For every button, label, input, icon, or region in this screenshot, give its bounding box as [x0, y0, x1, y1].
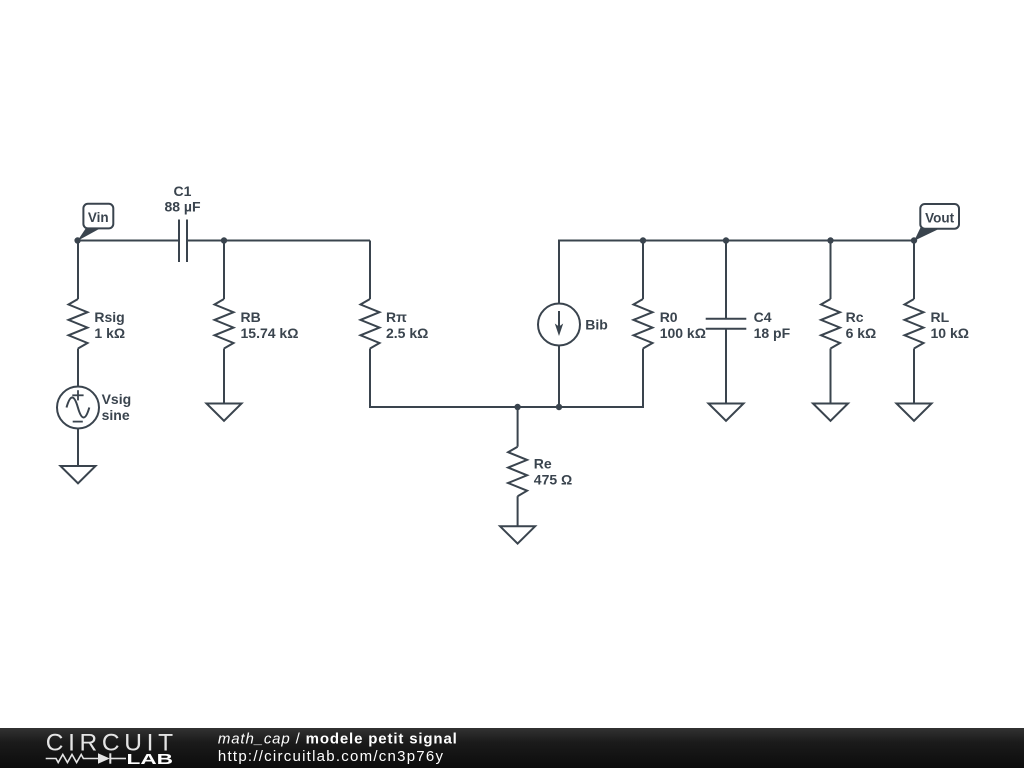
node Rc junction dot — [827, 237, 833, 243]
svg-text:R0: R0 — [660, 309, 678, 325]
node name flag Vout — [914, 204, 959, 241]
voltage source Vsig (sine) — [57, 387, 99, 429]
ground below Rc — [813, 404, 848, 421]
wire: Rpi down to emitter bus — [369, 349, 371, 408]
wire: Vsig to ground — [77, 429, 79, 467]
svg-text:6 kΩ: 6 kΩ — [846, 325, 877, 341]
svg-text:2.5 kΩ: 2.5 kΩ — [386, 325, 428, 341]
label Rpi 2.5 kOhm — [386, 309, 428, 341]
resistor Rpi — [361, 299, 380, 349]
label C1 name and value 88 uF — [164, 183, 201, 215]
svg-text:Vsig: Vsig — [102, 391, 132, 407]
resistor RL — [905, 299, 924, 349]
svg-text:Rsig: Rsig — [94, 309, 124, 325]
wire: Rsig to Vsig — [77, 349, 79, 387]
wire: rail down to Bib top — [558, 240, 560, 304]
label RB 15.74 kOhm — [241, 309, 299, 341]
wire: Re to ground — [517, 496, 519, 526]
ground below RB — [207, 404, 242, 421]
svg-text:Bib: Bib — [585, 316, 608, 332]
wire: bus down to Re — [517, 407, 519, 447]
svg-text:Vin: Vin — [88, 210, 109, 225]
svg-text:475 Ω: 475 Ω — [534, 472, 572, 488]
label RL 10 kOhm — [931, 309, 969, 341]
resistor Rsig — [69, 299, 88, 349]
svg-text:15.74 kΩ: 15.74 kΩ — [241, 325, 299, 341]
CircuitLab logo word CIRCUIT — [46, 730, 173, 757]
svg-text:10 kΩ: 10 kΩ — [931, 325, 969, 341]
current source Bib — [538, 304, 580, 346]
svg-text:88 µF: 88 µF — [164, 199, 201, 215]
node Bib junction dot on bus — [556, 404, 562, 410]
wire: RB to ground — [223, 349, 225, 404]
resistor Re — [508, 447, 527, 497]
svg-text:18 pF: 18 pF — [754, 325, 791, 341]
node RB junction dot — [221, 237, 227, 243]
wire: rail down to R0 — [642, 241, 644, 300]
svg-text:Re: Re — [534, 456, 552, 472]
label Vsig sine — [102, 391, 132, 423]
capacitor C1 — [179, 220, 187, 263]
label R0 100 kOhm — [660, 309, 706, 341]
svg-text:LAB: LAB — [127, 751, 174, 768]
svg-text:Vout: Vout — [925, 210, 954, 225]
label C4 18 pF — [754, 309, 791, 341]
ground below C4 — [709, 404, 744, 421]
wire: R0 down to bus corner — [642, 349, 644, 409]
label Re 475 Ohm — [534, 456, 572, 488]
wire: top node down to RB — [223, 241, 225, 300]
resistor Rc — [821, 299, 840, 349]
wire: rail down to RL — [913, 241, 915, 300]
wire: C4 to ground — [725, 329, 727, 403]
node R0 junction dot — [640, 237, 646, 243]
node RL / Vout junction dot — [911, 237, 917, 243]
label Bib — [585, 316, 608, 332]
wire: C1 right plate to Rpi top, through RB node — [187, 240, 370, 242]
svg-text:C1: C1 — [174, 183, 192, 199]
wire: RL to ground — [913, 349, 915, 404]
node Re junction dot on bus — [514, 404, 520, 410]
CircuitLab logo word LAB — [127, 751, 174, 768]
svg-text:math_cap / modele petit signal: math_cap / modele petit signal — [218, 730, 458, 747]
wire: Bib bottom to bus — [558, 346, 560, 408]
CircuitLab logo squiggle: wire, resistor zigzag, diode — [46, 753, 126, 763]
wire: Vin node down to Rsig — [77, 241, 79, 300]
node C4 junction dot — [723, 237, 729, 243]
wire: emitter bus horizontal — [369, 406, 643, 408]
wire: top wire down to Rpi — [369, 241, 371, 300]
ground below RL — [897, 404, 932, 421]
footer title: math_cap / modele petit signal — [218, 730, 458, 747]
footer url — [218, 748, 444, 765]
node Vin junction dot — [74, 237, 80, 243]
svg-text:sine: sine — [102, 407, 130, 423]
wire: Vin node to C1 left plate — [78, 240, 179, 242]
label Rsig 1 kOhm — [94, 309, 125, 341]
node name flag Vin — [77, 204, 113, 241]
label Rc 6 kOhm — [846, 309, 877, 341]
svg-text:RL: RL — [931, 309, 950, 325]
svg-text:http://circuitlab.com/cn3p76y: http://circuitlab.com/cn3p76y — [218, 748, 444, 765]
svg-text:1 kΩ: 1 kΩ — [94, 325, 125, 341]
svg-text:Rπ: Rπ — [386, 309, 407, 325]
footer black bar — [0, 728, 1024, 768]
svg-text:Rc: Rc — [846, 309, 864, 325]
resistor R0 — [634, 299, 653, 349]
svg-text:100 kΩ: 100 kΩ — [660, 325, 706, 341]
svg-text:C4: C4 — [754, 309, 772, 325]
wire: rail down to C4 — [725, 241, 727, 319]
wire: rail down to Rc — [830, 241, 832, 300]
ground below Re — [500, 526, 535, 543]
svg-text:RB: RB — [241, 309, 261, 325]
resistor RB — [215, 299, 234, 349]
wire: top-right rail from Bib to Vout node — [559, 240, 914, 242]
ground below Vsig — [61, 466, 96, 483]
capacitor C4 — [706, 319, 747, 329]
wire: Rc to ground — [830, 349, 832, 404]
